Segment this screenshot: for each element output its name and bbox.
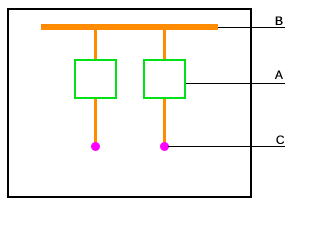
label B — [275, 15, 283, 27]
terminal dot 2 (magenta) — [160, 142, 169, 151]
wire W2 upper — [163, 30, 166, 59]
terminal dot 1 (magenta) — [91, 142, 100, 151]
bus bar B (orange) — [41, 24, 218, 30]
leader line to label B — [218, 27, 285, 28]
component box 1 (green) — [74, 59, 117, 99]
enclosure box — [7, 8, 252, 198]
leader line to label A — [186, 83, 285, 84]
component box 2 (green) — [143, 59, 186, 99]
label C — [276, 134, 285, 146]
leader line to label C — [168, 146, 285, 147]
label A — [275, 69, 283, 81]
wire W1 upper — [94, 30, 97, 59]
wire W2 lower — [163, 99, 166, 144]
wire W1 lower — [94, 99, 97, 144]
